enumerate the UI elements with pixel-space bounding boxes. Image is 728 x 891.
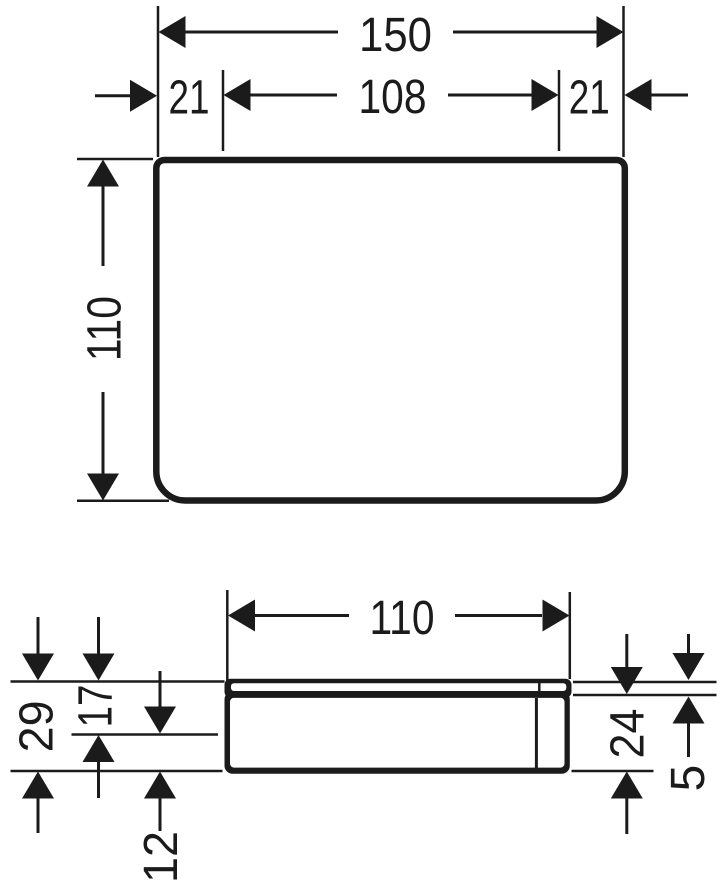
svg-text:150: 150 xyxy=(359,9,432,62)
svg-text:24: 24 xyxy=(602,709,655,759)
svg-text:5: 5 xyxy=(662,765,715,792)
svg-text:108: 108 xyxy=(359,71,427,124)
svg-text:21: 21 xyxy=(169,71,210,124)
svg-text:110: 110 xyxy=(370,592,435,645)
svg-text:21: 21 xyxy=(569,71,610,124)
svg-text:12: 12 xyxy=(135,831,188,883)
svg-text:17: 17 xyxy=(69,685,122,728)
svg-text:29: 29 xyxy=(10,700,63,752)
svg-text:110: 110 xyxy=(78,296,131,361)
